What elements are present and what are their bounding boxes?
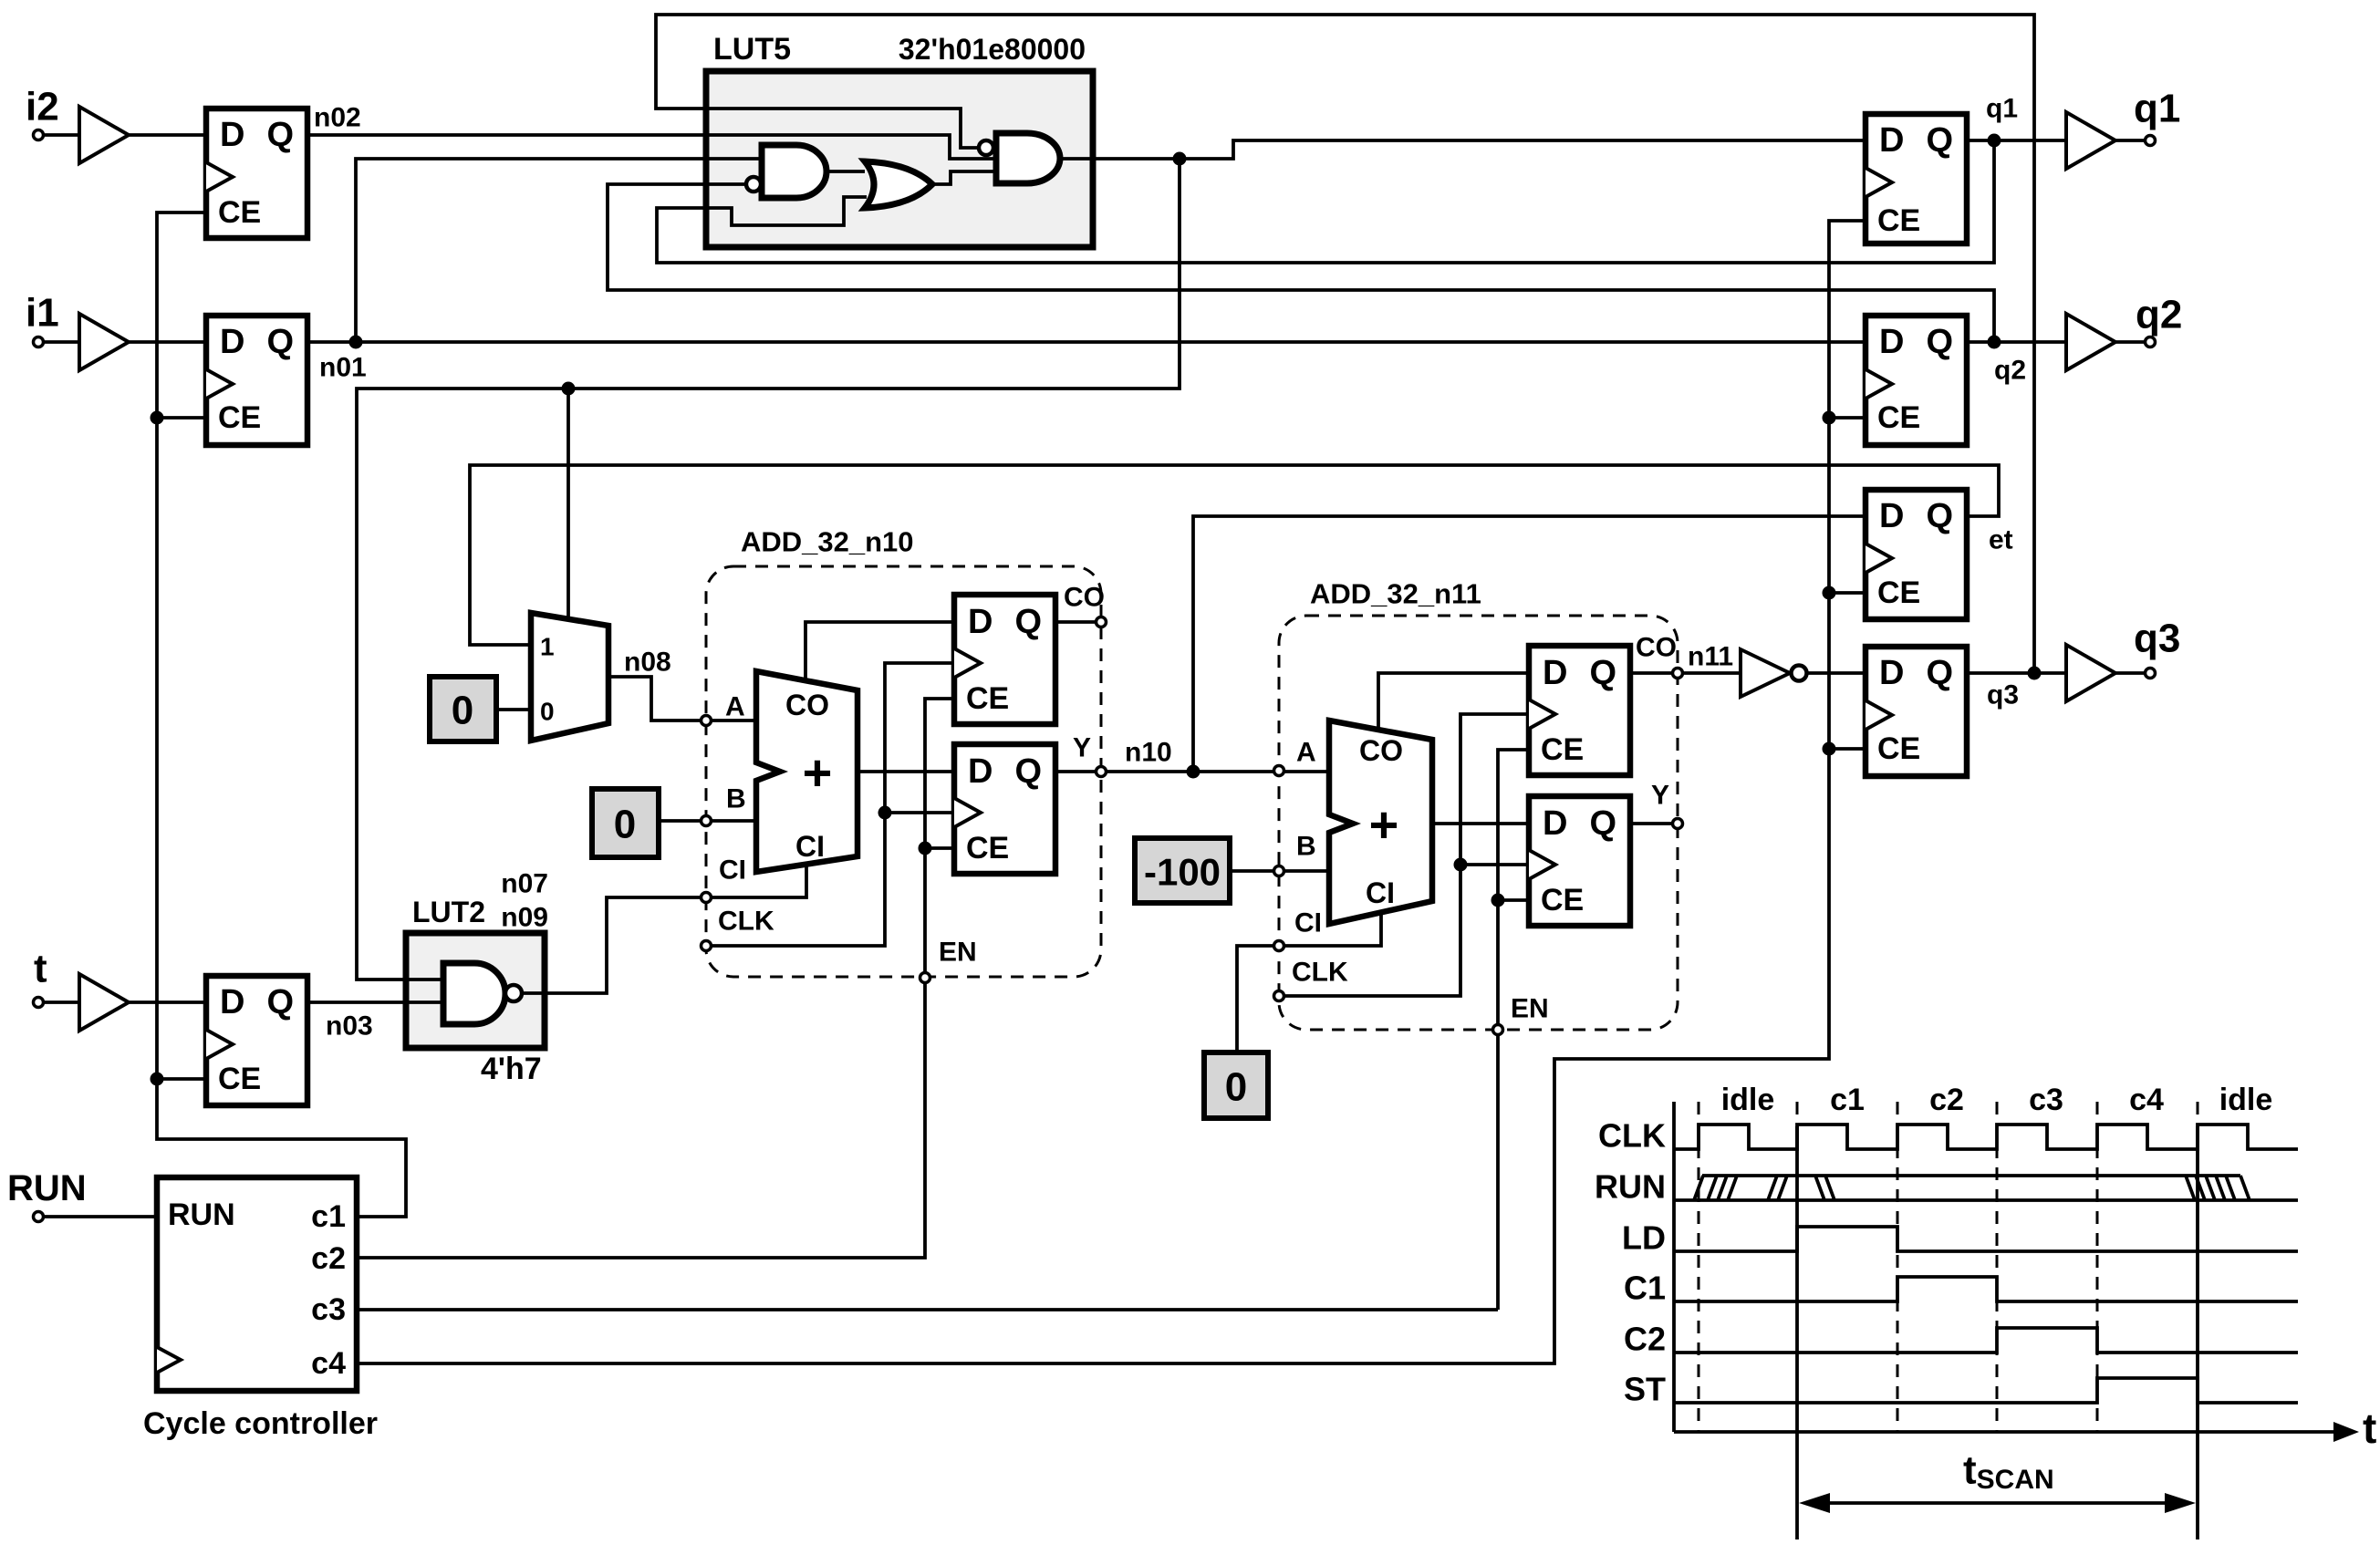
svg-text:q2: q2 bbox=[1994, 356, 2026, 386]
svg-text:4'h7: 4'h7 bbox=[481, 1052, 542, 1086]
cycle controller box bbox=[157, 1177, 357, 1391]
waveform C2 bbox=[1674, 1328, 2298, 1353]
svg-text:CE: CE bbox=[218, 1062, 261, 1096]
bubble and input bbox=[979, 140, 993, 155]
svg-text:LD: LD bbox=[1622, 1219, 1666, 1257]
wire n02 bbox=[307, 135, 996, 159]
svg-text:Q: Q bbox=[1589, 654, 1616, 692]
svg-text:D: D bbox=[1879, 121, 1904, 160]
svg-text:C1: C1 bbox=[1624, 1270, 1666, 1307]
svg-text:n02: n02 bbox=[314, 103, 361, 133]
svg-text:B: B bbox=[1296, 832, 1316, 862]
junction n10 bbox=[1187, 765, 1200, 779]
wire CLK1 bbox=[712, 663, 954, 946]
port B adder2 bbox=[1274, 866, 1284, 876]
ADD_32_n11 dashed block bbox=[1279, 616, 1678, 1030]
svg-text:t: t bbox=[34, 947, 47, 991]
mux bbox=[531, 613, 608, 741]
svg-text:CI: CI bbox=[795, 830, 825, 863]
adder2 bbox=[1329, 720, 1432, 924]
junction q2 CE bbox=[1823, 411, 1836, 425]
svg-text:CE: CE bbox=[966, 831, 1009, 866]
flip-flop et bbox=[1866, 490, 1967, 619]
LUT5 block body bbox=[706, 71, 1093, 247]
junction q3 CE bbox=[1823, 742, 1836, 756]
svg-text:q2: q2 bbox=[2136, 293, 2182, 337]
svg-text:CE: CE bbox=[1541, 883, 1584, 917]
input terminal t bbox=[34, 998, 44, 1008]
svg-text:Y: Y bbox=[1073, 733, 1091, 763]
svg-text:D: D bbox=[1879, 323, 1904, 361]
svg-text:c1: c1 bbox=[311, 1199, 346, 1234]
svg-text:q3: q3 bbox=[2134, 617, 2180, 661]
waveform RUN bbox=[1674, 1176, 2298, 1200]
port Y adder1 bbox=[1096, 767, 1107, 777]
svg-text:RUN: RUN bbox=[7, 1168, 87, 1208]
constant 0 for adder2 CI bbox=[1204, 1052, 1268, 1118]
and gate inside LUT5 bbox=[996, 133, 1060, 183]
wire q1 out bbox=[2115, 139, 2146, 142]
wire CO1 out bbox=[1055, 620, 1096, 624]
flip-flop t bbox=[206, 976, 307, 1105]
waveform CLK bbox=[1674, 1125, 2298, 1149]
svg-text:0: 0 bbox=[452, 689, 473, 733]
port B adder1 bbox=[702, 816, 712, 826]
output buffer q2 bbox=[2066, 314, 2115, 370]
wire adder1 CI bbox=[522, 862, 806, 993]
or gate inside LUT5 bbox=[865, 161, 932, 208]
bubble nand input bbox=[746, 177, 761, 192]
wire q2 Q bbox=[1967, 340, 2066, 344]
svg-text:A: A bbox=[1296, 738, 1316, 768]
svg-text:A: A bbox=[725, 692, 745, 722]
svg-text:RUN: RUN bbox=[168, 1197, 235, 1232]
bubble nand2 output bbox=[505, 985, 522, 1001]
svg-text:1: 1 bbox=[540, 633, 555, 661]
wire n01 bbox=[307, 159, 1866, 342]
svg-text:n10: n10 bbox=[1125, 738, 1172, 768]
flip-flop n10 CO bbox=[954, 595, 1055, 724]
junction n01 bbox=[349, 336, 363, 349]
svg-text:ST: ST bbox=[1624, 1371, 1666, 1408]
port A adder2 bbox=[1274, 766, 1284, 776]
input buffer t bbox=[79, 974, 129, 1031]
wire EN1 and c2 bbox=[357, 699, 954, 1258]
svg-text:CLK: CLK bbox=[1598, 1117, 1666, 1155]
svg-text:C2: C2 bbox=[1624, 1321, 1666, 1358]
svg-text:Q: Q bbox=[1926, 497, 1953, 535]
output terminal q1 bbox=[2146, 136, 2156, 146]
svg-text:Q: Q bbox=[1014, 752, 1042, 791]
junction CLK1 branch bbox=[878, 806, 892, 820]
wire inverter to q3 D bbox=[1807, 671, 1866, 675]
wire nand to or bbox=[826, 170, 865, 173]
junction EN2 branch bbox=[1491, 894, 1505, 907]
waveform C1 bbox=[1674, 1277, 2298, 1301]
constant 0 for adder1 B bbox=[592, 789, 659, 857]
junction CLK2 branch bbox=[1454, 858, 1468, 872]
port CLK adder2 bbox=[1274, 991, 1284, 1001]
input buffer i1 bbox=[79, 314, 129, 370]
svg-text:Q: Q bbox=[1589, 804, 1616, 843]
svg-text:D: D bbox=[220, 323, 244, 361]
constant -100 bbox=[1135, 838, 1230, 903]
wire c4 store enable bbox=[357, 221, 1866, 1363]
svg-text:c3: c3 bbox=[311, 1292, 346, 1327]
svg-text:D: D bbox=[1879, 497, 1904, 535]
svg-text:32'h01e80000: 32'h01e80000 bbox=[899, 33, 1086, 66]
svg-text:n01: n01 bbox=[319, 353, 367, 383]
svg-text:CO: CO bbox=[785, 689, 829, 721]
svg-text:n07: n07 bbox=[501, 869, 548, 899]
svg-text:D: D bbox=[968, 603, 993, 641]
svg-text:CE: CE bbox=[1541, 732, 1584, 767]
wire n10 bbox=[1107, 516, 1866, 772]
svg-text:CLK: CLK bbox=[718, 907, 774, 937]
junction q2 bbox=[1988, 336, 2001, 349]
port A adder1 bbox=[702, 716, 712, 726]
svg-text:-100: -100 bbox=[1144, 851, 1221, 894]
nand gate inside LUT2 bbox=[443, 963, 505, 1024]
flip-flop i1 bbox=[206, 316, 307, 445]
svg-text:0: 0 bbox=[540, 698, 555, 726]
svg-text:0: 0 bbox=[1225, 1065, 1247, 1110]
junction mux select bbox=[562, 382, 576, 396]
svg-text:CI: CI bbox=[1294, 908, 1322, 938]
constant 0 for mux bbox=[430, 677, 496, 741]
junction EN1 branch bbox=[919, 842, 932, 855]
wire EN2 and c3 bbox=[357, 750, 1529, 1310]
wire LUT5 output load bbox=[357, 140, 1866, 980]
flip-flop q3 bbox=[1866, 647, 1967, 776]
ADD_32_n10 dashed block bbox=[706, 566, 1101, 977]
svg-text:n09: n09 bbox=[501, 903, 548, 933]
wire q1 Q bbox=[1967, 139, 2066, 142]
svg-text:0: 0 bbox=[614, 803, 636, 847]
svg-text:ADD_32_n10: ADD_32_n10 bbox=[741, 526, 914, 558]
svg-text:Y: Y bbox=[1651, 781, 1669, 811]
svg-text:LUT2: LUT2 bbox=[412, 896, 485, 928]
svg-text:Q: Q bbox=[1926, 323, 1953, 361]
flip-flop n11 Y bbox=[1529, 796, 1630, 926]
junction q3 bbox=[2028, 667, 2042, 680]
tscan arrow bbox=[1828, 1501, 2167, 1505]
wire c1 load enable bbox=[157, 213, 406, 1217]
svg-text:i1: i1 bbox=[26, 291, 59, 336]
junction et CE bbox=[1823, 586, 1836, 600]
wire mux output n08 bbox=[608, 677, 756, 720]
wire CLK2 bbox=[1284, 714, 1529, 996]
wire const0 to adder1 B bbox=[659, 819, 756, 823]
wire RUN input bbox=[44, 1215, 157, 1218]
flip-flop i2 bbox=[206, 109, 307, 238]
wire Y2 out bbox=[1630, 822, 1673, 825]
port CI adder2 bbox=[1274, 941, 1284, 951]
wire adder2 Y bbox=[1432, 822, 1529, 825]
port CO adder1 bbox=[1096, 617, 1107, 627]
svg-text:Q: Q bbox=[1926, 654, 1953, 692]
tscan boundary lines bbox=[1797, 1102, 2198, 1129]
svg-text:c3: c3 bbox=[2029, 1083, 2063, 1117]
svg-text:Q: Q bbox=[1014, 603, 1042, 641]
LUT2 block body bbox=[406, 933, 545, 1048]
svg-text:D: D bbox=[968, 752, 993, 791]
svg-text:Cycle controller: Cycle controller bbox=[143, 1406, 378, 1441]
output buffer q1 bbox=[2066, 112, 2115, 169]
svg-text:q1: q1 bbox=[1986, 94, 2018, 124]
svg-text:D: D bbox=[1543, 804, 1567, 843]
flip-flop q1 bbox=[1866, 114, 1967, 244]
svg-text:CO: CO bbox=[1359, 734, 1403, 767]
svg-text:CE: CE bbox=[1877, 731, 1920, 766]
svg-text:D: D bbox=[220, 983, 244, 1021]
wire et feedback bbox=[470, 465, 1999, 645]
svg-text:CLK: CLK bbox=[1292, 958, 1348, 988]
waveform LD bbox=[1674, 1227, 2298, 1251]
output buffer q3 bbox=[2066, 645, 2115, 701]
input terminal i1 bbox=[34, 337, 44, 347]
waveform RUN hatching bbox=[1708, 1176, 2235, 1200]
wire adder2 CI bbox=[1237, 913, 1381, 1052]
port Y adder2 bbox=[1673, 819, 1683, 829]
svg-text:Q: Q bbox=[266, 323, 294, 361]
svg-text:LUT5: LUT5 bbox=[713, 32, 791, 67]
junction LUT5 output bbox=[1173, 152, 1187, 166]
svg-text:idle: idle bbox=[1721, 1083, 1775, 1117]
svg-text:+: + bbox=[1369, 796, 1399, 854]
wire or to and bbox=[932, 171, 996, 184]
wire i2 input bbox=[44, 133, 206, 137]
wire n03 bbox=[307, 1000, 443, 1004]
flip-flop n11 CO bbox=[1529, 646, 1630, 775]
wire q1 feedback bbox=[657, 140, 1994, 263]
junction q1 bbox=[1988, 134, 2001, 148]
svg-text:B: B bbox=[726, 784, 746, 814]
svg-text:q1: q1 bbox=[2134, 87, 2180, 131]
svg-text:D: D bbox=[220, 116, 244, 154]
port CI adder1 bbox=[702, 893, 712, 903]
svg-text:CE: CE bbox=[1877, 203, 1920, 238]
wire i1 input bbox=[44, 340, 206, 344]
wire q3 feedback bbox=[656, 15, 2034, 673]
wire adder1 CO bbox=[805, 622, 954, 682]
svg-text:+: + bbox=[803, 744, 833, 802]
svg-text:t: t bbox=[2363, 1405, 2376, 1452]
svg-text:c1: c1 bbox=[1830, 1083, 1865, 1117]
wire -100 to adder2 B bbox=[1230, 869, 1329, 873]
nand gate inside LUT5 bbox=[762, 145, 826, 198]
svg-text:EN: EN bbox=[939, 938, 977, 968]
timing axis bbox=[1674, 1102, 2337, 1432]
svg-text:n11: n11 bbox=[1688, 642, 1733, 672]
wire q3 Q bbox=[1967, 671, 2066, 675]
wire q2 out bbox=[2115, 340, 2146, 344]
input buffer i2 bbox=[79, 107, 129, 163]
wire n11 to inverter bbox=[1630, 671, 1741, 675]
wire adder2 CO bbox=[1378, 673, 1529, 730]
svg-text:q3: q3 bbox=[1987, 680, 2019, 710]
inverter n11 bbox=[1741, 649, 1790, 697]
port CLK adder1 bbox=[702, 941, 712, 951]
port EN adder1 bbox=[920, 973, 930, 983]
svg-text:CE: CE bbox=[1877, 575, 1920, 610]
port CO adder2 bbox=[1673, 669, 1683, 679]
timing axis arrowhead bbox=[2333, 1422, 2359, 1442]
svg-text:RUN: RUN bbox=[1595, 1168, 1666, 1206]
svg-text:et: et bbox=[1989, 525, 2013, 555]
svg-text:ADD_32_n11: ADD_32_n11 bbox=[1310, 578, 1481, 610]
svg-text:CI: CI bbox=[719, 855, 746, 886]
input terminal RUN bbox=[34, 1212, 44, 1222]
port EN adder2 bbox=[1493, 1025, 1503, 1035]
adder1 bbox=[756, 671, 857, 872]
svg-text:CO: CO bbox=[1064, 583, 1105, 613]
junction c1 i1 CE bbox=[151, 411, 164, 425]
svg-text:CE: CE bbox=[1877, 400, 1920, 435]
svg-text:c2: c2 bbox=[1929, 1083, 1964, 1117]
output terminal q3 bbox=[2146, 669, 2156, 679]
flip-flop n10 Y bbox=[954, 744, 1055, 874]
wire Y1 out bbox=[1055, 770, 1096, 773]
timing dashed gridlines bbox=[1699, 1102, 2097, 1432]
svg-text:D: D bbox=[1879, 654, 1904, 692]
svg-text:D: D bbox=[1543, 654, 1567, 692]
svg-text:CO: CO bbox=[1636, 633, 1677, 663]
svg-text:Q: Q bbox=[1926, 121, 1953, 160]
wire const0 to mux bbox=[496, 708, 531, 711]
wire t input bbox=[44, 1000, 206, 1004]
svg-text:CE: CE bbox=[966, 681, 1009, 716]
svg-text:CE: CE bbox=[218, 195, 261, 230]
waveform ST bbox=[1674, 1378, 2298, 1403]
svg-text:Q: Q bbox=[266, 983, 294, 1021]
svg-text:c4: c4 bbox=[2129, 1083, 2164, 1117]
flip-flop q2 bbox=[1866, 316, 1967, 445]
wire q2 feedback bbox=[608, 184, 1994, 342]
svg-text:n03: n03 bbox=[326, 1011, 373, 1042]
svg-text:i2: i2 bbox=[26, 85, 59, 130]
svg-text:c2: c2 bbox=[311, 1241, 346, 1276]
bubble inverter bbox=[1792, 666, 1807, 681]
junction c1 t CE bbox=[151, 1073, 164, 1086]
wire q3 out bbox=[2115, 671, 2146, 675]
svg-text:CI: CI bbox=[1366, 876, 1395, 909]
output terminal q2 bbox=[2146, 337, 2156, 347]
input terminal i2 bbox=[34, 130, 44, 140]
svg-text:idle: idle bbox=[2219, 1083, 2273, 1117]
svg-text:CE: CE bbox=[218, 400, 261, 435]
wire adder1 Y bbox=[857, 770, 954, 773]
svg-text:Q: Q bbox=[266, 116, 294, 154]
svg-text:n08: n08 bbox=[624, 648, 671, 678]
svg-text:EN: EN bbox=[1511, 994, 1549, 1024]
svg-text:c4: c4 bbox=[311, 1346, 346, 1381]
